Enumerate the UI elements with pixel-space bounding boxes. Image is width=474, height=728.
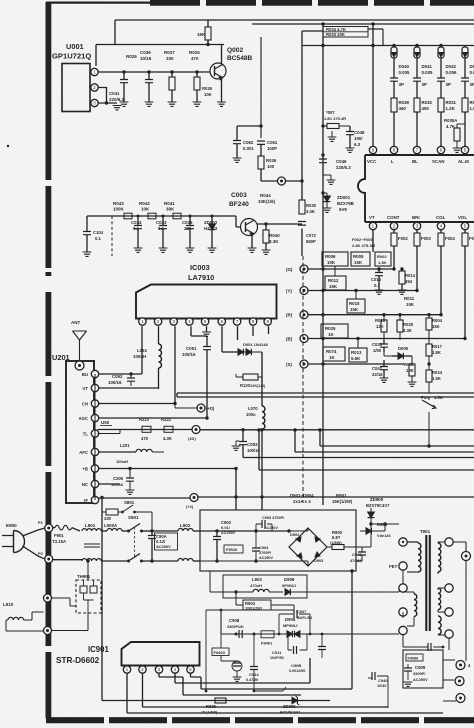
transformer sec pin3 xyxy=(445,608,453,616)
zener ZD903 xyxy=(366,497,390,526)
wire IC901 pin5 xyxy=(191,569,354,689)
label R011 xyxy=(404,296,415,307)
transformer pin a xyxy=(399,538,407,546)
wire rail S xyxy=(308,362,404,365)
U201 pin AFC xyxy=(79,448,99,455)
transformer pin c xyxy=(399,608,407,616)
capacitor C908 xyxy=(227,618,244,638)
posistor TH901 xyxy=(76,559,101,613)
transformer sec pin2 xyxy=(438,584,453,592)
resistor R036 xyxy=(258,156,277,181)
connector node S xyxy=(286,360,308,368)
diode D009 xyxy=(384,346,412,359)
diode D906 pair xyxy=(283,617,300,637)
wire IC003 pin6 xyxy=(222,326,238,352)
dashed shield stub xyxy=(111,216,113,256)
wire out2 line xyxy=(443,700,456,702)
zener ZD001 xyxy=(321,191,354,212)
wire rail mid3 xyxy=(293,428,474,452)
resistor F003 xyxy=(414,230,431,291)
connector out4 xyxy=(456,661,471,670)
diode D908 xyxy=(282,577,307,595)
IC003 pin 7 xyxy=(233,318,240,325)
capacitor C036 xyxy=(140,50,153,102)
wire U001 pin1 row xyxy=(98,70,210,73)
resistor F005 xyxy=(462,230,474,339)
transformer sec mid xyxy=(438,588,445,612)
wire R903 down xyxy=(206,605,294,611)
resistor R223 xyxy=(139,417,151,441)
resistor R032 xyxy=(414,98,433,146)
wire top node xyxy=(96,43,224,46)
resistor R014 xyxy=(398,267,416,294)
wire rail tuner9 IF xyxy=(98,497,191,499)
switch S901 bottom xyxy=(101,554,178,563)
wire plug top xyxy=(23,528,45,536)
diode D041 xyxy=(414,46,433,79)
wire rail mid2 xyxy=(318,428,474,447)
U001 pin 1 xyxy=(90,68,98,75)
resistor R120 xyxy=(236,374,266,388)
wire rail IF out xyxy=(198,495,474,498)
resistor R004 xyxy=(426,313,443,338)
IC901 pin 1 xyxy=(123,666,130,673)
inductor L051 xyxy=(133,326,162,389)
transistor Q002 xyxy=(210,63,226,80)
series resistor R043 xyxy=(113,201,132,219)
wire IC003 pin7 xyxy=(237,326,239,340)
wire sec out1 xyxy=(453,542,466,552)
capacitor C940 xyxy=(368,672,388,708)
ground R037 xyxy=(168,102,177,106)
IC U301 bottom labels xyxy=(369,215,467,220)
resistor R035A xyxy=(444,118,465,152)
capacitor C90A xyxy=(148,529,178,562)
resistor R075 xyxy=(197,20,211,45)
wire rail tuner2 xyxy=(98,387,159,389)
wire rail B+ top xyxy=(252,23,474,25)
wire degauss b xyxy=(52,613,89,631)
IC003 pin 8 xyxy=(249,318,256,325)
U201 pin NC xyxy=(82,480,99,487)
IC003 pin 4 xyxy=(186,318,193,325)
resistor R006 box xyxy=(322,252,348,276)
wire base line xyxy=(87,215,241,228)
fuse F9403 box xyxy=(212,634,229,656)
IC IC901 label xyxy=(56,645,109,665)
wire rail tl xyxy=(98,430,121,434)
IC003 pin 1 xyxy=(139,318,146,325)
transformer sec low xyxy=(438,616,445,635)
wire rail tuner7 +B xyxy=(98,467,238,510)
switch S801 xyxy=(102,500,153,532)
series resistor R042 xyxy=(139,201,156,219)
connector +2 xyxy=(186,494,198,510)
wire IC003 pin4 xyxy=(191,326,207,336)
IC IC003 block xyxy=(136,285,277,319)
U001 pin 3 xyxy=(91,99,98,106)
choke L901 core xyxy=(84,544,100,547)
capacitor C015 xyxy=(371,267,383,294)
wire Q002 emitter xyxy=(221,78,223,103)
capacitor C910 xyxy=(221,656,242,682)
IC003 pin 2 xyxy=(154,318,161,325)
wire U001 top link xyxy=(95,45,97,67)
wire IC003 pin9 xyxy=(268,326,270,334)
transistor C003 label xyxy=(229,192,249,208)
ground C041 xyxy=(120,102,129,106)
capacitor C035 xyxy=(372,340,388,353)
IC901 pin 5 xyxy=(187,666,194,673)
wire C003 collector out xyxy=(257,223,303,225)
switch S901 top xyxy=(127,515,152,533)
series resistor R041 xyxy=(164,201,181,219)
IC003 pin 5 xyxy=(201,318,208,325)
capacitor C903 xyxy=(254,516,285,533)
transformer pin d xyxy=(399,612,407,635)
loop C911 xyxy=(270,634,307,660)
capacitor C914 xyxy=(246,634,259,692)
inductor L903 xyxy=(232,577,283,592)
snubber box xyxy=(223,575,307,598)
capacitor C904 xyxy=(252,531,273,563)
diode D905 xyxy=(360,522,391,538)
wire VT drop xyxy=(372,230,374,252)
diode D040 xyxy=(391,46,410,79)
resistor R039 xyxy=(391,98,410,146)
resistor R016 xyxy=(375,313,387,340)
resistor F004 xyxy=(438,230,455,315)
diode D051 xyxy=(238,342,268,398)
subckt C907 top xyxy=(278,609,313,635)
capacitor C034 xyxy=(131,216,142,252)
U201 pin AGC xyxy=(78,414,98,421)
resistor R031 xyxy=(438,98,457,146)
choke L901 top xyxy=(82,523,101,531)
diode D043 xyxy=(462,46,474,79)
wire primary feed xyxy=(356,522,399,547)
IC U301 pin ALM xyxy=(461,146,468,155)
border top line xyxy=(46,1,474,3)
IC U301 pin VCC xyxy=(369,146,376,155)
wire top diode rail xyxy=(302,29,474,47)
IC003 pin 3 xyxy=(170,318,177,325)
wire IC901 pin2 xyxy=(143,673,389,707)
transformer aux xyxy=(403,592,417,626)
U201 pin CH xyxy=(82,400,99,407)
wire rail mid4 xyxy=(243,457,474,459)
connector P3 xyxy=(44,594,52,602)
wire y700 R906 ZD905 xyxy=(201,696,300,715)
wire rail tuner4 xyxy=(98,416,209,419)
IC U201 label xyxy=(52,353,70,362)
line filter box xyxy=(200,510,356,571)
zener ZD002 xyxy=(204,216,218,252)
IC U301 top labels xyxy=(367,159,469,164)
wire degauss a xyxy=(52,598,77,606)
wire out drop xyxy=(461,658,467,661)
U201 pin TL xyxy=(83,430,99,437)
wire rail B xyxy=(308,337,467,340)
capacitor C041 xyxy=(109,72,128,102)
wire box out2 xyxy=(443,679,454,681)
wire snubber out xyxy=(307,588,399,592)
connector node Y xyxy=(286,287,308,295)
IC U301 pin L xyxy=(390,146,397,155)
IC U301 pin 2 xyxy=(390,222,397,229)
resistor R900 xyxy=(327,530,356,550)
resistor R061 xyxy=(404,356,416,386)
capacitor C104 xyxy=(83,216,104,256)
connector P1 xyxy=(38,520,53,532)
transformer sec pin4 xyxy=(445,630,453,638)
wire IC003 pin3 xyxy=(174,326,176,404)
capacitor C909b xyxy=(424,643,444,651)
output box C909 xyxy=(403,650,443,688)
connector P4 xyxy=(44,627,52,635)
ground Q002 emitter xyxy=(217,102,226,106)
connector out3 xyxy=(455,677,464,686)
IC003 pin 6 xyxy=(218,318,225,325)
label F row xyxy=(352,237,376,248)
transformer primary xyxy=(403,542,421,572)
IC901 pin 4 xyxy=(171,666,178,673)
wire bridge top node xyxy=(283,528,308,547)
wire vertical bus B xyxy=(321,22,324,505)
connector node B xyxy=(286,335,308,343)
wire vert 206 xyxy=(205,610,208,692)
capacitor C033a xyxy=(156,216,167,252)
capacitor C036b xyxy=(182,216,194,252)
IC U001 box xyxy=(62,64,90,112)
wire rail tuner6 xyxy=(98,443,165,464)
label R035 xyxy=(202,86,213,97)
capacitor C072 xyxy=(298,222,317,245)
wire sec out drop xyxy=(465,560,467,660)
capacitor C043 xyxy=(461,78,474,98)
transformer sec top xyxy=(438,542,452,574)
inductor L900A xyxy=(101,523,127,531)
transformer core xyxy=(426,535,430,631)
transformer pin b xyxy=(380,584,407,592)
U001 pin 2 xyxy=(91,84,98,91)
wire rail tuner1 xyxy=(98,373,143,375)
capacitor C046 xyxy=(319,153,351,170)
inductor L902 bottom xyxy=(178,559,200,562)
inductor L070 xyxy=(246,406,265,429)
capacitor C040 xyxy=(390,78,404,98)
wire box out1 xyxy=(443,659,455,661)
connector node R xyxy=(286,311,308,319)
capacitor C90B xyxy=(289,633,326,673)
resistor R013 box xyxy=(349,337,367,362)
wire plug bottom xyxy=(23,546,45,559)
wire IC901 pin3 xyxy=(159,673,301,695)
IC U001 label xyxy=(52,42,91,61)
U201 pin link xyxy=(94,374,96,500)
edge mark xyxy=(7,145,9,147)
wire U001 pin3 xyxy=(98,101,117,104)
transistor Q002 label xyxy=(227,47,253,62)
border left bar xyxy=(46,2,52,718)
IC U301 pin SCAN xyxy=(437,146,444,155)
connector P2 xyxy=(38,551,53,563)
wire rail tuner3 xyxy=(98,402,177,405)
fuse F9026 box xyxy=(224,545,243,553)
ground C062 xyxy=(233,158,242,162)
wire IC003 pin1 xyxy=(141,326,143,374)
capacitor C041 xyxy=(413,78,427,98)
antenna input connector xyxy=(75,361,84,370)
inductor L910 xyxy=(3,602,44,631)
wire rail C2D xyxy=(200,428,474,431)
ground pin3 xyxy=(113,106,122,110)
label R026 xyxy=(126,54,137,59)
resistor R017 xyxy=(426,338,443,364)
IC901 pin 2 xyxy=(139,666,146,673)
fuse F9401 box xyxy=(261,631,274,646)
plug E900 xyxy=(2,523,25,553)
choke L901 bottom xyxy=(53,559,102,561)
wire IC901 pin1 xyxy=(127,673,443,713)
wire vbus left xyxy=(100,496,330,701)
inductor L902 top xyxy=(152,523,200,531)
transformer label T901 xyxy=(420,529,431,534)
IC003 pin 9 xyxy=(264,318,271,325)
wire bridge bottom feed xyxy=(200,561,308,566)
border bottom bar xyxy=(46,717,474,723)
wire pot drop xyxy=(428,412,430,446)
IC901 pin 3 xyxy=(155,666,162,673)
label U50 xyxy=(100,420,112,426)
capacitor C047 xyxy=(372,360,388,382)
IC U301 pin 4 xyxy=(437,222,444,229)
wire rail tuner8 xyxy=(98,483,121,485)
switch gang dash xyxy=(134,527,136,557)
transformer FET pin xyxy=(389,562,407,584)
IC U301 pin BL xyxy=(413,146,420,155)
resistor R037 xyxy=(164,50,175,102)
resistor R074 box xyxy=(323,347,345,361)
capacitor C906 xyxy=(350,547,366,563)
wire rail mid5 xyxy=(257,428,474,470)
capacitor C048 xyxy=(346,126,365,152)
wire vertical bus C xyxy=(259,37,262,138)
connector out2 xyxy=(456,694,465,703)
bridge D901-D904 xyxy=(289,528,327,566)
ground R025 xyxy=(193,102,202,106)
resistor R040 xyxy=(262,222,281,254)
capacitor C042 xyxy=(437,78,451,98)
fuse F9086 box xyxy=(406,654,423,661)
wire IC901 pin4 xyxy=(175,658,310,683)
IC IC003 label xyxy=(188,263,214,282)
IC IC901 block xyxy=(122,642,200,666)
resistor R025 xyxy=(189,50,200,102)
transistor C003 BF240 xyxy=(241,219,258,237)
resistor R034 box xyxy=(323,27,368,38)
resistor R222 xyxy=(161,417,173,441)
capacitor C902 xyxy=(213,520,236,563)
wire snubber feed xyxy=(210,571,232,592)
capacitor C031 xyxy=(111,467,134,495)
resistor R028b xyxy=(397,313,414,340)
wire rail tuner3b xyxy=(175,404,197,409)
wire R034 links xyxy=(302,29,383,31)
resistor R903 box xyxy=(234,590,294,610)
capacitor C053 xyxy=(232,430,261,458)
U201 pin +B xyxy=(82,465,98,472)
wire rail G xyxy=(308,267,396,270)
bridge labels xyxy=(290,493,353,504)
pot R023 xyxy=(421,395,443,409)
fuse F901 xyxy=(52,525,80,544)
resistor R024 xyxy=(426,362,443,393)
resistor R029 box xyxy=(321,324,348,338)
U201 pin VT xyxy=(83,384,99,391)
connector sec out xyxy=(462,552,471,561)
diode D042 xyxy=(438,46,457,79)
wire rail Y xyxy=(308,289,419,292)
wire vertical bus A xyxy=(301,31,303,256)
ground C046 branch xyxy=(323,175,335,184)
wire rail R xyxy=(308,313,443,316)
capacitor C909 xyxy=(404,664,429,686)
resistor R012 box xyxy=(325,276,346,290)
ground C036 xyxy=(145,102,154,106)
transformer sec pin1 xyxy=(445,538,453,546)
wire C003 emitter xyxy=(251,235,253,248)
ground C003 emitter xyxy=(248,248,257,252)
resistor R030 xyxy=(299,200,317,214)
IC U301 pin 3 xyxy=(413,222,420,229)
connector CNR xyxy=(261,177,304,185)
wire L070 bus xyxy=(261,352,263,510)
resistor R028 xyxy=(462,98,474,146)
ground T007 xyxy=(328,131,337,141)
wire snubber bus xyxy=(221,610,399,636)
IC U301 pin 5 xyxy=(461,222,468,229)
connector node G xyxy=(286,265,308,273)
ground IC003 pin5 xyxy=(202,326,211,336)
connector +D xyxy=(197,404,215,412)
antenna ANT xyxy=(71,320,87,361)
wire bridge top feed xyxy=(200,530,289,532)
connector 2D xyxy=(188,426,200,442)
wire y691 xyxy=(183,687,286,691)
resistor R044 label xyxy=(258,193,276,204)
resistor R002 box xyxy=(375,252,391,266)
wire U001 pin2 xyxy=(98,88,106,104)
wire Q002 collector xyxy=(221,45,223,65)
capacitor C051 xyxy=(182,336,211,418)
resistor R005 box xyxy=(351,252,370,266)
U201 pin BU xyxy=(82,370,99,377)
ground C061 none xyxy=(0,0,1,1)
wire cap row xyxy=(237,125,261,127)
wire trans to box xyxy=(403,634,449,650)
IC U301 pin 1 xyxy=(369,222,376,230)
capacitor C052 xyxy=(108,372,135,386)
wire rail VCC top xyxy=(115,20,474,45)
U201 pin IF xyxy=(84,496,99,503)
capacitor C061 xyxy=(257,140,278,156)
IC U201 block xyxy=(66,361,94,503)
wire rail tuner5 xyxy=(98,429,193,431)
dashed bus vertical xyxy=(302,256,304,503)
resistor F002 xyxy=(391,230,408,269)
resistor R015 box xyxy=(347,289,365,313)
